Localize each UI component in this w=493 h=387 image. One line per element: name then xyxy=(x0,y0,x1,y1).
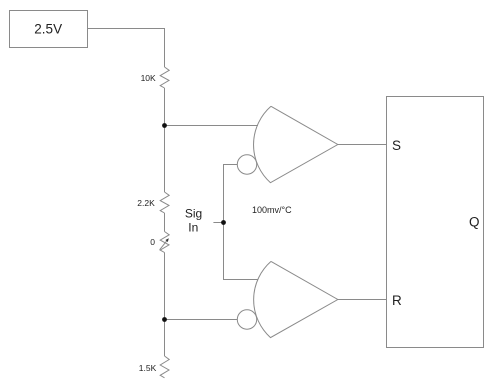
svg-text:2.2K: 2.2K xyxy=(137,198,155,208)
svg-text:Q: Q xyxy=(469,214,480,229)
svg-text:2.5V: 2.5V xyxy=(34,22,62,37)
svg-text:S: S xyxy=(392,138,401,153)
svg-text:1.5K: 1.5K xyxy=(139,363,157,373)
svg-text:Sig: Sig xyxy=(185,206,202,220)
svg-text:0: 0 xyxy=(150,237,155,247)
svg-text:10K: 10K xyxy=(141,73,156,83)
svg-text:In: In xyxy=(188,220,198,234)
svg-text:R: R xyxy=(392,293,402,308)
svg-text:100mv/°C: 100mv/°C xyxy=(252,205,292,215)
